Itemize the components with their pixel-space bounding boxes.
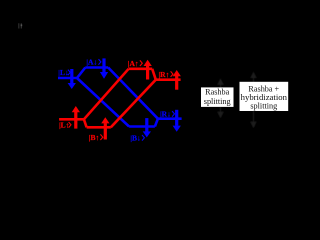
level L-up bbox=[59, 118, 84, 121]
level B-down bbox=[129, 125, 155, 128]
spin arrow R-down bbox=[173, 110, 181, 132]
label ket A-down bbox=[86, 58, 101, 67]
spin arrow L-down bbox=[68, 69, 76, 89]
spin arrow A-down bbox=[100, 58, 108, 78]
svg-text:splitting: splitting bbox=[204, 97, 231, 106]
svg-text:|A↑: |A↑ bbox=[128, 59, 139, 68]
svg-text:hybridization: hybridization bbox=[241, 92, 288, 102]
label ket L-up bbox=[59, 121, 71, 130]
label ket B-down bbox=[130, 134, 144, 143]
level L-down bbox=[58, 77, 78, 80]
spin arrow R-up bbox=[173, 70, 181, 90]
svg-text:|B↑: |B↑ bbox=[89, 133, 99, 142]
level A-down bbox=[85, 66, 108, 69]
white box Rashba + hybridization splitting bbox=[240, 82, 289, 111]
wire blue L-down to B-down bbox=[77, 78, 129, 127]
svg-text:Rashba: Rashba bbox=[205, 88, 229, 97]
wire blue L-down to A-down bbox=[77, 68, 85, 79]
wire red L-up to B-up bbox=[84, 119, 87, 127]
level A-up bbox=[129, 68, 153, 71]
label ket A-up bbox=[128, 59, 143, 68]
level R-down bbox=[158, 117, 182, 120]
spin arrow A-up bbox=[144, 60, 152, 80]
svg-text:|R↓: |R↓ bbox=[160, 110, 171, 119]
spin arrow L-up bbox=[72, 106, 80, 129]
svg-text:|B↓: |B↓ bbox=[130, 134, 140, 143]
white box Rashba splitting bbox=[201, 87, 234, 107]
svg-text:|L↑: |L↑ bbox=[59, 121, 69, 130]
svg-text:|L↓: |L↓ bbox=[58, 68, 68, 77]
svg-text:|R↑: |R↑ bbox=[159, 70, 170, 79]
gray splitting arrow (left, behind box) bbox=[218, 79, 223, 117]
svg-text:|A↓: |A↓ bbox=[86, 58, 97, 67]
wire blue A-down to R-down bbox=[108, 68, 158, 119]
label ket R-down bbox=[160, 110, 175, 119]
gray splitting arrow (right, behind box) bbox=[251, 73, 256, 128]
label ket B-up bbox=[89, 133, 103, 142]
spin arrow B-up bbox=[101, 117, 109, 139]
wire red L-up to A-up bbox=[84, 69, 129, 120]
spin arrow B-down bbox=[143, 118, 151, 137]
wire blue B-down to R-down bbox=[155, 119, 158, 127]
faint corner glyph bbox=[18, 23, 22, 28]
level B-up bbox=[87, 126, 111, 129]
label ket R-up bbox=[159, 70, 174, 79]
wire red B-up to R-up bbox=[111, 80, 156, 128]
label ket L-down bbox=[58, 68, 70, 77]
svg-text:splitting: splitting bbox=[250, 102, 277, 111]
wire red A-up to R-up bbox=[152, 69, 156, 80]
level R-up bbox=[156, 78, 181, 81]
